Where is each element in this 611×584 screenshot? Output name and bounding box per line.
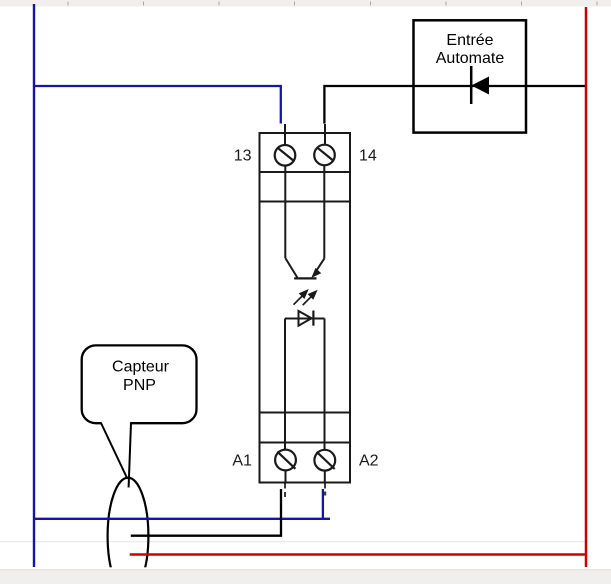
LED cathode bar	[312, 311, 314, 326]
callout tail right line	[129, 423, 131, 488]
svg-text:Entrée: Entrée	[446, 32, 493, 49]
svg-text:PNP: PNP	[123, 377, 156, 394]
light arrow 2	[303, 291, 316, 305]
terminal screw A1	[275, 450, 296, 471]
relay row line top2	[260, 201, 351, 203]
terminal screw 13	[275, 145, 296, 166]
svg-text:Automate: Automate	[436, 50, 505, 67]
light arrow 1	[294, 291, 308, 305]
wire: blue top horizontal to terminal 13	[34, 86, 281, 124]
callout tail left line	[101, 423, 128, 479]
svg-text:13: 13	[234, 148, 252, 165]
pin stub terminal 13	[284, 124, 286, 145]
LED triangle	[299, 311, 312, 326]
bottom status bar	[0, 570, 611, 584]
canvas bottom white band	[0, 567, 611, 570]
wire: blue bus vertical left	[33, 4, 35, 567]
wire: red bottom horizontal from sensor to red bus	[130, 553, 586, 556]
svg-text:A1: A1	[232, 453, 252, 470]
dashed pin A2	[324, 484, 326, 496]
wire: blue vertical up to A2	[322, 489, 324, 519]
terminal screw 14	[314, 145, 335, 166]
wire: black sensor output to terminal A1	[131, 489, 281, 536]
pin stub terminal 14	[324, 124, 326, 145]
top ruler bar	[0, 0, 611, 7]
phototransistor left diagonal	[285, 258, 297, 278]
LED horizontal wire	[285, 318, 325, 320]
pin stub A2 below screw	[324, 470, 326, 482]
pin stub A1 below screw	[285, 470, 287, 482]
svg-text:A2: A2	[359, 453, 379, 470]
svg-text:Capteur: Capteur	[112, 359, 170, 376]
PLC input box (Entree Automate)	[414, 20, 527, 132]
phototransistor right diagonal with arrow	[315, 259, 325, 274]
terminal screw A2	[314, 450, 335, 471]
page boundary faint line	[0, 541, 586, 543]
callout bubble Capteur PNP	[82, 345, 197, 423]
diode symbol arrow pointing left	[473, 77, 489, 93]
LED right rail down to A2	[324, 319, 326, 450]
wire: red bus vertical right	[585, 7, 588, 567]
phototransistor base bar	[294, 277, 316, 279]
svg-text:14: 14	[359, 148, 377, 165]
wire: blue pin dash A2	[324, 492, 326, 496]
wire: blue bottom horizontal to terminal A2	[34, 518, 330, 520]
relay module outline	[260, 133, 351, 483]
relay row line bottom1	[260, 412, 351, 414]
wire: black top horizontal from terminal 14 to PLC input and red bus	[324, 86, 586, 124]
diode symbol in PLC input (cathode bar)	[470, 66, 473, 104]
relay row line top1	[260, 171, 351, 173]
phototransistor collector rail from 13	[284, 166, 286, 258]
sensor body ellipse (capteur PNP)	[108, 478, 149, 584]
relay row line bottom2	[260, 442, 351, 444]
dashed pin A1	[284, 484, 286, 501]
LED left rail down to A1	[284, 319, 286, 450]
phototransistor emitter rail from 14	[323, 165, 325, 258]
